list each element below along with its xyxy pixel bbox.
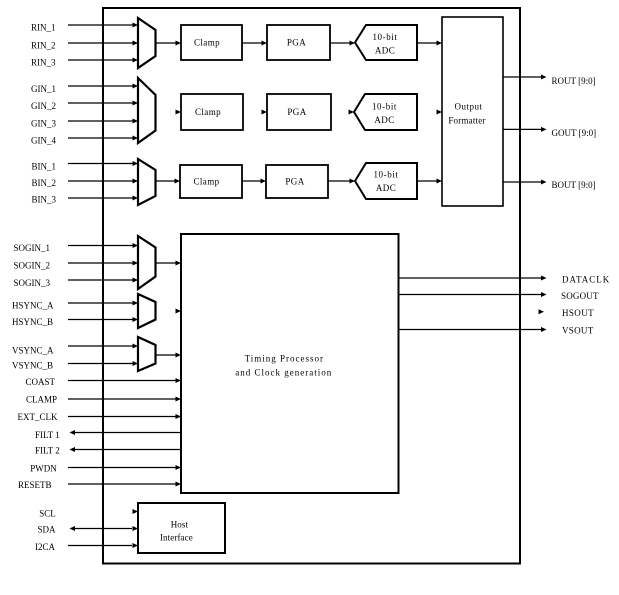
wire BIN_2 input: [68, 179, 138, 184]
svg-text:RIN_2: RIN_2: [31, 41, 56, 51]
svg-text:ADC: ADC: [375, 46, 395, 56]
wire SOGIN_1 input: [68, 243, 138, 248]
svg-text:FILT 1: FILT 1: [35, 430, 60, 440]
svg-text:GIN_1: GIN_1: [31, 84, 56, 94]
block Clamp (G): [181, 94, 243, 130]
block PGA (B): [266, 165, 328, 198]
block 10-bit ADC (G): [354, 94, 417, 130]
wire R PGA to ADC: [330, 41, 355, 46]
svg-text:Interface: Interface: [160, 532, 193, 542]
wire SDA (bidirectional): [70, 526, 139, 531]
svg-text:BIN_1: BIN_1: [32, 162, 57, 172]
wire HSYNC_B input: [68, 317, 138, 322]
svg-text:10-bit: 10-bit: [373, 170, 398, 180]
svg-text:PWDN: PWDN: [30, 463, 57, 473]
wire VSYNC_A input: [68, 344, 138, 349]
wire SCL (arrowhead only at Host Interface): [133, 509, 139, 514]
arrow G Clamp to PGA: [262, 110, 268, 115]
block PGA (R): [267, 25, 330, 60]
svg-text:GIN_3: GIN_3: [31, 118, 56, 128]
wire RIN_3 input: [68, 58, 138, 63]
svg-text:Clamp: Clamp: [195, 107, 221, 117]
wire VSYNC_B input: [68, 361, 138, 366]
arrow HSOUT output (arrowhead only): [539, 309, 545, 314]
wire RIN_2 input: [68, 41, 138, 46]
svg-text:HSOUT: HSOUT: [562, 308, 594, 318]
chip boundary (IC outline): [103, 8, 520, 564]
wire I2CA input: [68, 543, 138, 548]
svg-text:RIN_1: RIN_1: [31, 23, 56, 33]
wire SOGIN_3 input: [68, 278, 138, 283]
wire R mux to Clamp: [156, 41, 182, 46]
svg-text:ROUT [9:0]: ROUT [9:0]: [552, 76, 596, 86]
svg-text:COAST: COAST: [26, 377, 56, 387]
arrow HSYNC mux to Timing Processor: [176, 309, 182, 314]
svg-text:BIN_3: BIN_3: [32, 195, 57, 205]
wire RIN_1 input: [68, 23, 138, 28]
wire GIN_2 input: [68, 101, 138, 106]
svg-text:PGA: PGA: [285, 177, 304, 187]
block Clamp (R): [181, 25, 242, 60]
block Clamp (B): [180, 165, 242, 198]
svg-text:CLAMP: CLAMP: [26, 395, 57, 405]
mux blue channel (3:1): [138, 159, 156, 205]
wire SOGOUT output: [399, 292, 547, 297]
svg-text:SOGIN_2: SOGIN_2: [14, 261, 51, 271]
arrow G ADC to Output Formatter: [437, 110, 443, 115]
svg-text:HSYNC_A: HSYNC_A: [12, 301, 54, 311]
svg-text:PGA: PGA: [287, 107, 306, 117]
mux VSYNC (2:1): [138, 337, 156, 371]
svg-text:RIN_3: RIN_3: [31, 58, 56, 68]
block 10-bit ADC (R): [355, 25, 417, 60]
wire GIN_3 input: [68, 119, 138, 124]
wire GIN_1 input: [68, 84, 138, 89]
block Output Formatter: [442, 17, 503, 206]
wire B PGA to ADC: [328, 179, 355, 184]
svg-text:10-bit: 10-bit: [372, 32, 397, 42]
svg-text:I2CA: I2CA: [35, 542, 56, 552]
svg-text:Clamp: Clamp: [194, 38, 220, 48]
wire VSYNC mux to Timing Processor: [156, 353, 182, 358]
svg-text:VSYNC_A: VSYNC_A: [12, 346, 54, 356]
svg-text:VSYNC_B: VSYNC_B: [12, 361, 53, 371]
svg-text:SCL: SCL: [39, 509, 56, 519]
wire VSOUT output: [399, 327, 547, 332]
svg-text:Output: Output: [454, 102, 482, 112]
wire ROUT output: [503, 75, 547, 80]
wire SOG mux to Timing Processor: [156, 261, 182, 266]
wire R ADC to Output Formatter: [417, 41, 442, 46]
wire SOGIN_2 input: [68, 261, 138, 266]
svg-text:SOGIN_3: SOGIN_3: [14, 278, 51, 288]
block Timing Processor and Clock generation: [181, 234, 399, 493]
svg-text:Host: Host: [171, 519, 189, 529]
svg-text:ADC: ADC: [374, 115, 394, 125]
svg-text:GOUT [9:0]: GOUT [9:0]: [552, 128, 597, 138]
svg-text:SDA: SDA: [38, 525, 57, 535]
svg-text:GIN_2: GIN_2: [31, 101, 56, 111]
wire COAST input: [68, 378, 181, 383]
block Host Interface: [138, 503, 225, 553]
wire B ADC to Output Formatter: [417, 179, 442, 184]
svg-text:SOGOUT: SOGOUT: [561, 291, 599, 301]
wire GOUT output: [503, 127, 547, 132]
wire B mux to Clamp: [156, 179, 181, 184]
svg-text:SOGIN_1: SOGIN_1: [14, 243, 51, 253]
wire PWDN input: [68, 465, 181, 470]
svg-text:EXT_CLK: EXT_CLK: [18, 412, 58, 422]
svg-text:and Clock generation: and Clock generation: [235, 367, 332, 377]
svg-text:HSYNC_B: HSYNC_B: [12, 317, 53, 327]
svg-text:RESETB: RESETB: [18, 480, 52, 490]
svg-text:ADC: ADC: [376, 183, 396, 193]
mux HSYNC (2:1): [138, 294, 156, 328]
block 10-bit ADC (B): [355, 163, 417, 199]
mux red channel (3:1): [138, 18, 156, 68]
svg-text:FILT 2: FILT 2: [35, 445, 60, 455]
wire BOUT output: [503, 180, 547, 185]
svg-text:BOUT [9:0]: BOUT [9:0]: [552, 180, 596, 190]
svg-text:PGA: PGA: [287, 38, 306, 48]
wire DATACLK output: [399, 276, 547, 281]
wire HSYNC_A input: [68, 301, 138, 306]
wire BIN_3 input: [68, 196, 138, 201]
arrow G mux to Clamp: [176, 110, 182, 115]
svg-text:Clamp: Clamp: [194, 177, 220, 187]
svg-text:Timing Processor: Timing Processor: [245, 354, 324, 364]
wire FILT 2 (arrow points left): [70, 447, 182, 452]
block PGA (G): [267, 94, 331, 130]
wire GIN_4 input: [68, 136, 138, 141]
svg-text:Formatter: Formatter: [448, 116, 485, 126]
wire B Clamp to PGA: [242, 179, 266, 184]
wire CLAMP input: [68, 397, 181, 402]
mux SOG (3:1): [138, 236, 156, 289]
svg-text:GIN_4: GIN_4: [31, 136, 56, 146]
svg-text:VSOUT: VSOUT: [562, 326, 594, 336]
wire R Clamp to PGA: [242, 41, 267, 46]
svg-text:10-bit: 10-bit: [372, 102, 397, 112]
wire BIN_1 input: [68, 161, 138, 166]
svg-text:DATACLK: DATACLK: [562, 275, 610, 285]
wire EXT_CLK input: [68, 414, 181, 419]
mux green channel (4:1): [138, 78, 156, 143]
wire RESETB input: [68, 482, 181, 487]
svg-text:BIN_2: BIN_2: [32, 178, 57, 188]
wire FILT 1 (arrow points left): [70, 430, 182, 435]
arrow G PGA to ADC: [349, 110, 355, 115]
